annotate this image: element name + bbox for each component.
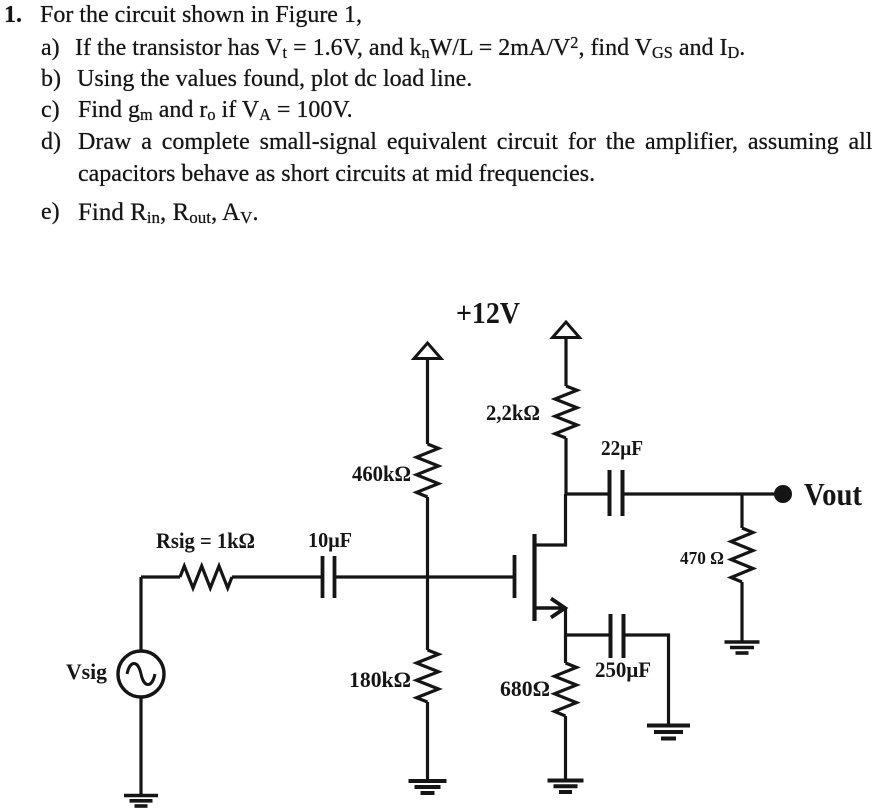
wire bias mid (460k bottom to gate line to 180k top) xyxy=(426,497,429,650)
node: source node wiring xyxy=(566,633,611,636)
svg-text:Vout: Vout xyxy=(804,476,862,512)
capacitor C3 250uF xyxy=(611,614,624,658)
resistor R 460k xyxy=(417,444,439,497)
svg-text:Rsig = 1kΩ: Rsig = 1kΩ xyxy=(156,528,255,553)
channel bar xyxy=(532,534,536,621)
ground (below 250uF) xyxy=(647,726,690,739)
wire source node down to 680 xyxy=(564,635,567,663)
svg-text:250μF: 250μF xyxy=(595,657,651,682)
source lead xyxy=(535,606,566,610)
ground (below 680) xyxy=(548,781,584,793)
power arrow left (+12V supply, bias branch) xyxy=(414,343,441,444)
svg-text:180kΩ: 180kΩ xyxy=(349,667,411,692)
gate bar xyxy=(513,555,517,598)
resistor R 470 xyxy=(731,528,753,582)
svg-text:22μF: 22μF xyxy=(601,436,643,460)
ground (below Vsig) xyxy=(124,796,158,807)
wire C2 to Vout xyxy=(623,492,777,495)
wire output node down to 470 xyxy=(740,494,743,528)
svg-text:10μF: 10μF xyxy=(308,528,352,552)
wire C3 right and down to ground xyxy=(624,635,669,724)
svg-text:470 Ω: 470 Ω xyxy=(680,548,724,568)
wire: main input/gate line xyxy=(141,575,180,578)
sine wave xyxy=(127,664,155,685)
wire 2.2k to drain node xyxy=(564,438,567,494)
wire drain node to C2 xyxy=(566,492,610,495)
capacitor C1 10uF xyxy=(323,556,335,598)
svg-text:460kΩ: 460kΩ xyxy=(352,461,411,486)
wire 680 to ground xyxy=(564,716,567,779)
sine source circle xyxy=(118,651,164,697)
svg-text:Vsig: Vsig xyxy=(66,659,107,684)
power arrow right (+12V supply, drain branch) xyxy=(553,322,580,386)
source wire down xyxy=(564,608,567,635)
resistor Rsig 1k (horizontal) xyxy=(180,566,232,588)
wire 470 to ground xyxy=(740,582,743,641)
transistor Q1 NMOS xyxy=(515,494,566,635)
source: Vsig xyxy=(118,577,164,794)
problem text xyxy=(4,3,22,27)
svg-text:+12V: +12V xyxy=(456,295,521,330)
resistor R 680 xyxy=(555,663,577,716)
ground (below 180k) xyxy=(409,781,447,793)
svg-text:680Ω: 680Ω xyxy=(500,676,550,701)
drain lead xyxy=(535,494,566,545)
wire circle to ground xyxy=(139,697,142,794)
ground (below 470) xyxy=(725,642,760,653)
wire gate line down to source circle xyxy=(139,577,142,651)
capacitor C2 22uF xyxy=(610,470,623,516)
node Vout terminal dot xyxy=(774,485,792,503)
svg-text:2,2kΩ: 2,2kΩ xyxy=(486,400,540,425)
wire Rsig to C1 xyxy=(232,575,322,578)
wire 180k to ground xyxy=(426,702,429,780)
resistor R 180k xyxy=(417,650,439,702)
resistor R 2.2k xyxy=(555,386,577,438)
source arrow xyxy=(551,599,565,618)
wire C1 to gate (through bias junction) xyxy=(335,575,515,578)
